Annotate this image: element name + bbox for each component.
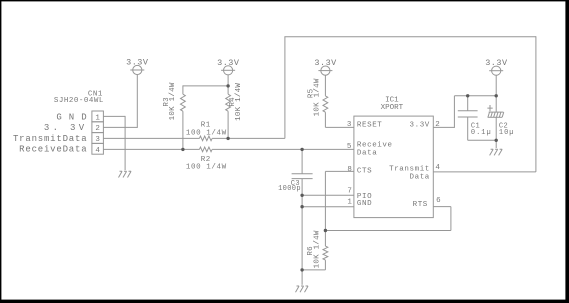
IC1 pin name Receive Data (357, 142, 393, 158)
svg-text:3: 3 (347, 121, 352, 129)
svg-text:Transmit: Transmit (389, 165, 430, 173)
wire R1 right to loop riser (212, 137, 285, 139)
svg-text:XPORT: XPORT (381, 104, 404, 112)
wire RESET to IC1 pin3 (325, 126, 354, 128)
wire CTS drop vertical (324, 171, 326, 230)
junction node R3 ReceiveData (181, 148, 184, 151)
svg-text:GND: GND (357, 200, 372, 208)
power 3.3V symbol P1 (130, 65, 144, 74)
wire RTS drop vertical (450, 207, 452, 231)
wire RTS to R6 top (325, 230, 451, 232)
wire C2 bottom lead (495, 117, 497, 140)
svg-text:R1: R1 (201, 121, 211, 129)
pin numbers CN1 1-4 (95, 114, 100, 154)
wire C3 bottom to ground G2 (301, 179, 303, 285)
wire R6 top lead (324, 231, 326, 247)
svg-text:100 1/4W: 100 1/4W (186, 164, 227, 172)
svg-text:ReceiveData: ReceiveData (19, 145, 87, 155)
svg-text:1: 1 (347, 198, 352, 206)
wire R3 bottom lead to ReceiveData (182, 111, 184, 149)
resistor R1 100 1/4W (199, 136, 212, 141)
wire R6 bottom lead (324, 260, 326, 270)
wire to ground G3 (495, 140, 497, 148)
svg-text:1: 1 (95, 114, 100, 122)
wire R2 right to IC1 pin5 Receive (212, 148, 354, 150)
wire IC1 pin6 RTS stub (433, 206, 451, 208)
wire loop right vertical (535, 36, 537, 172)
svg-text:5: 5 (347, 143, 352, 151)
svg-text:3. 3V: 3. 3V (44, 123, 88, 133)
svg-text:10K 1/4W: 10K 1/4W (169, 82, 177, 120)
svg-text:3.3V: 3.3V (409, 122, 429, 130)
ground G3 under C2 (490, 149, 503, 155)
wire R4 bottom lead to TransmitData (227, 111, 229, 138)
resistor R2 100 1/4W (199, 147, 212, 152)
capacitor C3 1000p plates (292, 174, 313, 179)
svg-text:3: 3 (95, 136, 100, 144)
svg-text:7: 7 (347, 187, 352, 195)
power 3.3V symbol P2 (221, 66, 235, 75)
svg-text:G N D: G N D (56, 112, 87, 122)
connector CN1 SJH20-04WL pin boxes (92, 111, 104, 154)
wire 3.3V P4 drop (495, 75, 497, 96)
svg-text:3.3V: 3.3V (126, 58, 149, 68)
svg-text:10K 1/4W: 10K 1/4W (235, 83, 243, 121)
junction node C2 top 3.3V (494, 94, 497, 97)
wire loop bottom to IC1 pin4 (433, 171, 536, 173)
wire CN1 pin1 to ground drop (103, 115, 125, 117)
svg-text:2: 2 (95, 125, 100, 133)
svg-text:3.3V: 3.3V (314, 58, 337, 68)
IC1 pin name Transmit Data (389, 165, 430, 181)
junction node GND pin1 (300, 205, 303, 208)
svg-text:RESET: RESET (357, 122, 383, 130)
svg-text:3.3V: 3.3V (217, 58, 240, 68)
IC IC1 XPORT body (354, 116, 433, 217)
power 3.3V symbol P3 (318, 66, 332, 75)
wire PIO to IC1 pin7 (302, 194, 354, 196)
resistor R6 10K 1/4W (323, 246, 328, 260)
svg-text:Data: Data (357, 150, 377, 158)
junction node R3-R4 tie (226, 84, 229, 87)
svg-text:Data: Data (409, 173, 429, 181)
svg-text:TransmitData: TransmitData (13, 134, 87, 144)
svg-text:10K 1/4W: 10K 1/4W (314, 78, 322, 116)
capacitor C1 0.1u plates (458, 111, 478, 117)
svg-text:4: 4 (95, 147, 100, 155)
svg-text:SJH20-04WL: SJH20-04WL (54, 97, 104, 105)
junction node C3 Receive (300, 148, 303, 151)
wire C1 C2 bottom tie (468, 139, 497, 141)
wire ReceiveData CN1 pin4 to R2 (103, 148, 199, 150)
wire pin2 riser vertical (453, 96, 455, 128)
svg-text:0.1µ: 0.1µ (471, 129, 492, 137)
wire TransmitData CN1 pin3 to R1 (103, 137, 199, 139)
svg-text:CTS: CTS (357, 167, 372, 175)
svg-text:Receive: Receive (357, 142, 393, 150)
wire C1 bottom lead (467, 117, 469, 140)
ground G2 bottom (296, 286, 309, 292)
junction node C2 bottom ground (494, 139, 497, 142)
power 3.3V symbol P4 (489, 66, 503, 75)
wire 3.3V P2 down through node to R4 (227, 75, 229, 94)
junction node PIO (300, 194, 303, 197)
wire R5 bottom lead (324, 112, 326, 127)
wire 3.3V riser vertical (136, 75, 138, 128)
capacitor C2 10u electrolytic hatched plate and plus (487, 105, 503, 117)
wire C2 top lead (495, 96, 497, 112)
svg-text:4: 4 (435, 164, 440, 172)
wire C3 top lead from Receive node (301, 149, 303, 173)
svg-text:3.3V: 3.3V (485, 58, 508, 68)
wire IC1 pin8 CTS stub (325, 170, 354, 172)
resistor R3 10K 1/4W (181, 94, 186, 111)
svg-text:6: 6 (436, 197, 441, 205)
ground G1 under CN1 (119, 171, 132, 177)
svg-text:10K 1/4W: 10K 1/4W (314, 230, 322, 268)
wire ground drop vertical (124, 116, 126, 170)
junction node CTS RTS R6 (324, 229, 327, 232)
wire IC1 pin2 3.3V out (433, 126, 454, 128)
svg-text:2: 2 (435, 121, 440, 129)
svg-text:100 1/4W: 100 1/4W (186, 129, 227, 137)
resistor R4 10K 1/4W (226, 94, 231, 111)
wire loop top horizontal (284, 36, 536, 38)
wire loop riser vertical (284, 37, 286, 139)
svg-text:RTS: RTS (413, 201, 428, 209)
wire 3.3V rail to C1 C2 (454, 95, 496, 97)
svg-text:10µ: 10µ (499, 129, 515, 137)
wire C1 top lead (467, 96, 469, 111)
svg-text:1000p: 1000p (278, 185, 301, 193)
junction node R4 TransmitData (226, 137, 229, 140)
wire R6 bottom to ground line (302, 269, 325, 271)
wire R3 top lead (182, 85, 184, 94)
wire R3 top tie to R4 line (183, 85, 228, 87)
wire 3.3V P3 to R5 top (324, 75, 326, 96)
wire GND to IC1 pin1 (302, 206, 354, 208)
junction node C1 top (466, 94, 469, 97)
resistor R5 10K 1/4W (323, 96, 328, 112)
junction node R6 bottom (300, 268, 303, 271)
wire CN1 pin2 to 3.3V riser (103, 126, 137, 128)
svg-text:8: 8 (347, 166, 352, 174)
